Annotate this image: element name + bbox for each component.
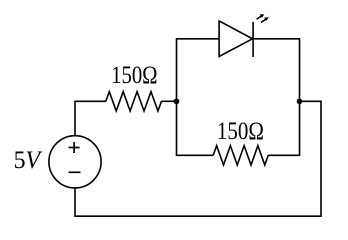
- LED emission arrow 2: [261, 17, 269, 22]
- resistor R1: [106, 92, 162, 111]
- voltage source V1: [49, 136, 101, 188]
- wire node A down to R2: [177, 101, 214, 155]
- LED emission arrow 1: [257, 14, 265, 19]
- wire node A up to LED anode: [177, 39, 220, 102]
- svg-text:5V: 5V: [14, 147, 43, 174]
- wire R2 up to node B: [268, 101, 299, 155]
- LED D1 triangle: [219, 21, 252, 57]
- svg-text:150Ω: 150Ω: [111, 62, 158, 89]
- resistor R2: [213, 146, 268, 165]
- plus sign: [69, 142, 80, 153]
- node B junction dot: [297, 98, 303, 104]
- wire R1 to node A: [161, 100, 176, 102]
- svg-text:150Ω: 150Ω: [217, 118, 264, 145]
- wire source top to R1: [75, 101, 106, 135]
- wire node B to right rail and bottom return to source: [75, 101, 321, 216]
- wire LED cathode to node B: [253, 39, 299, 102]
- node A junction dot: [174, 98, 180, 104]
- minus sign: [69, 171, 81, 173]
- LED cathode bar: [252, 22, 254, 57]
